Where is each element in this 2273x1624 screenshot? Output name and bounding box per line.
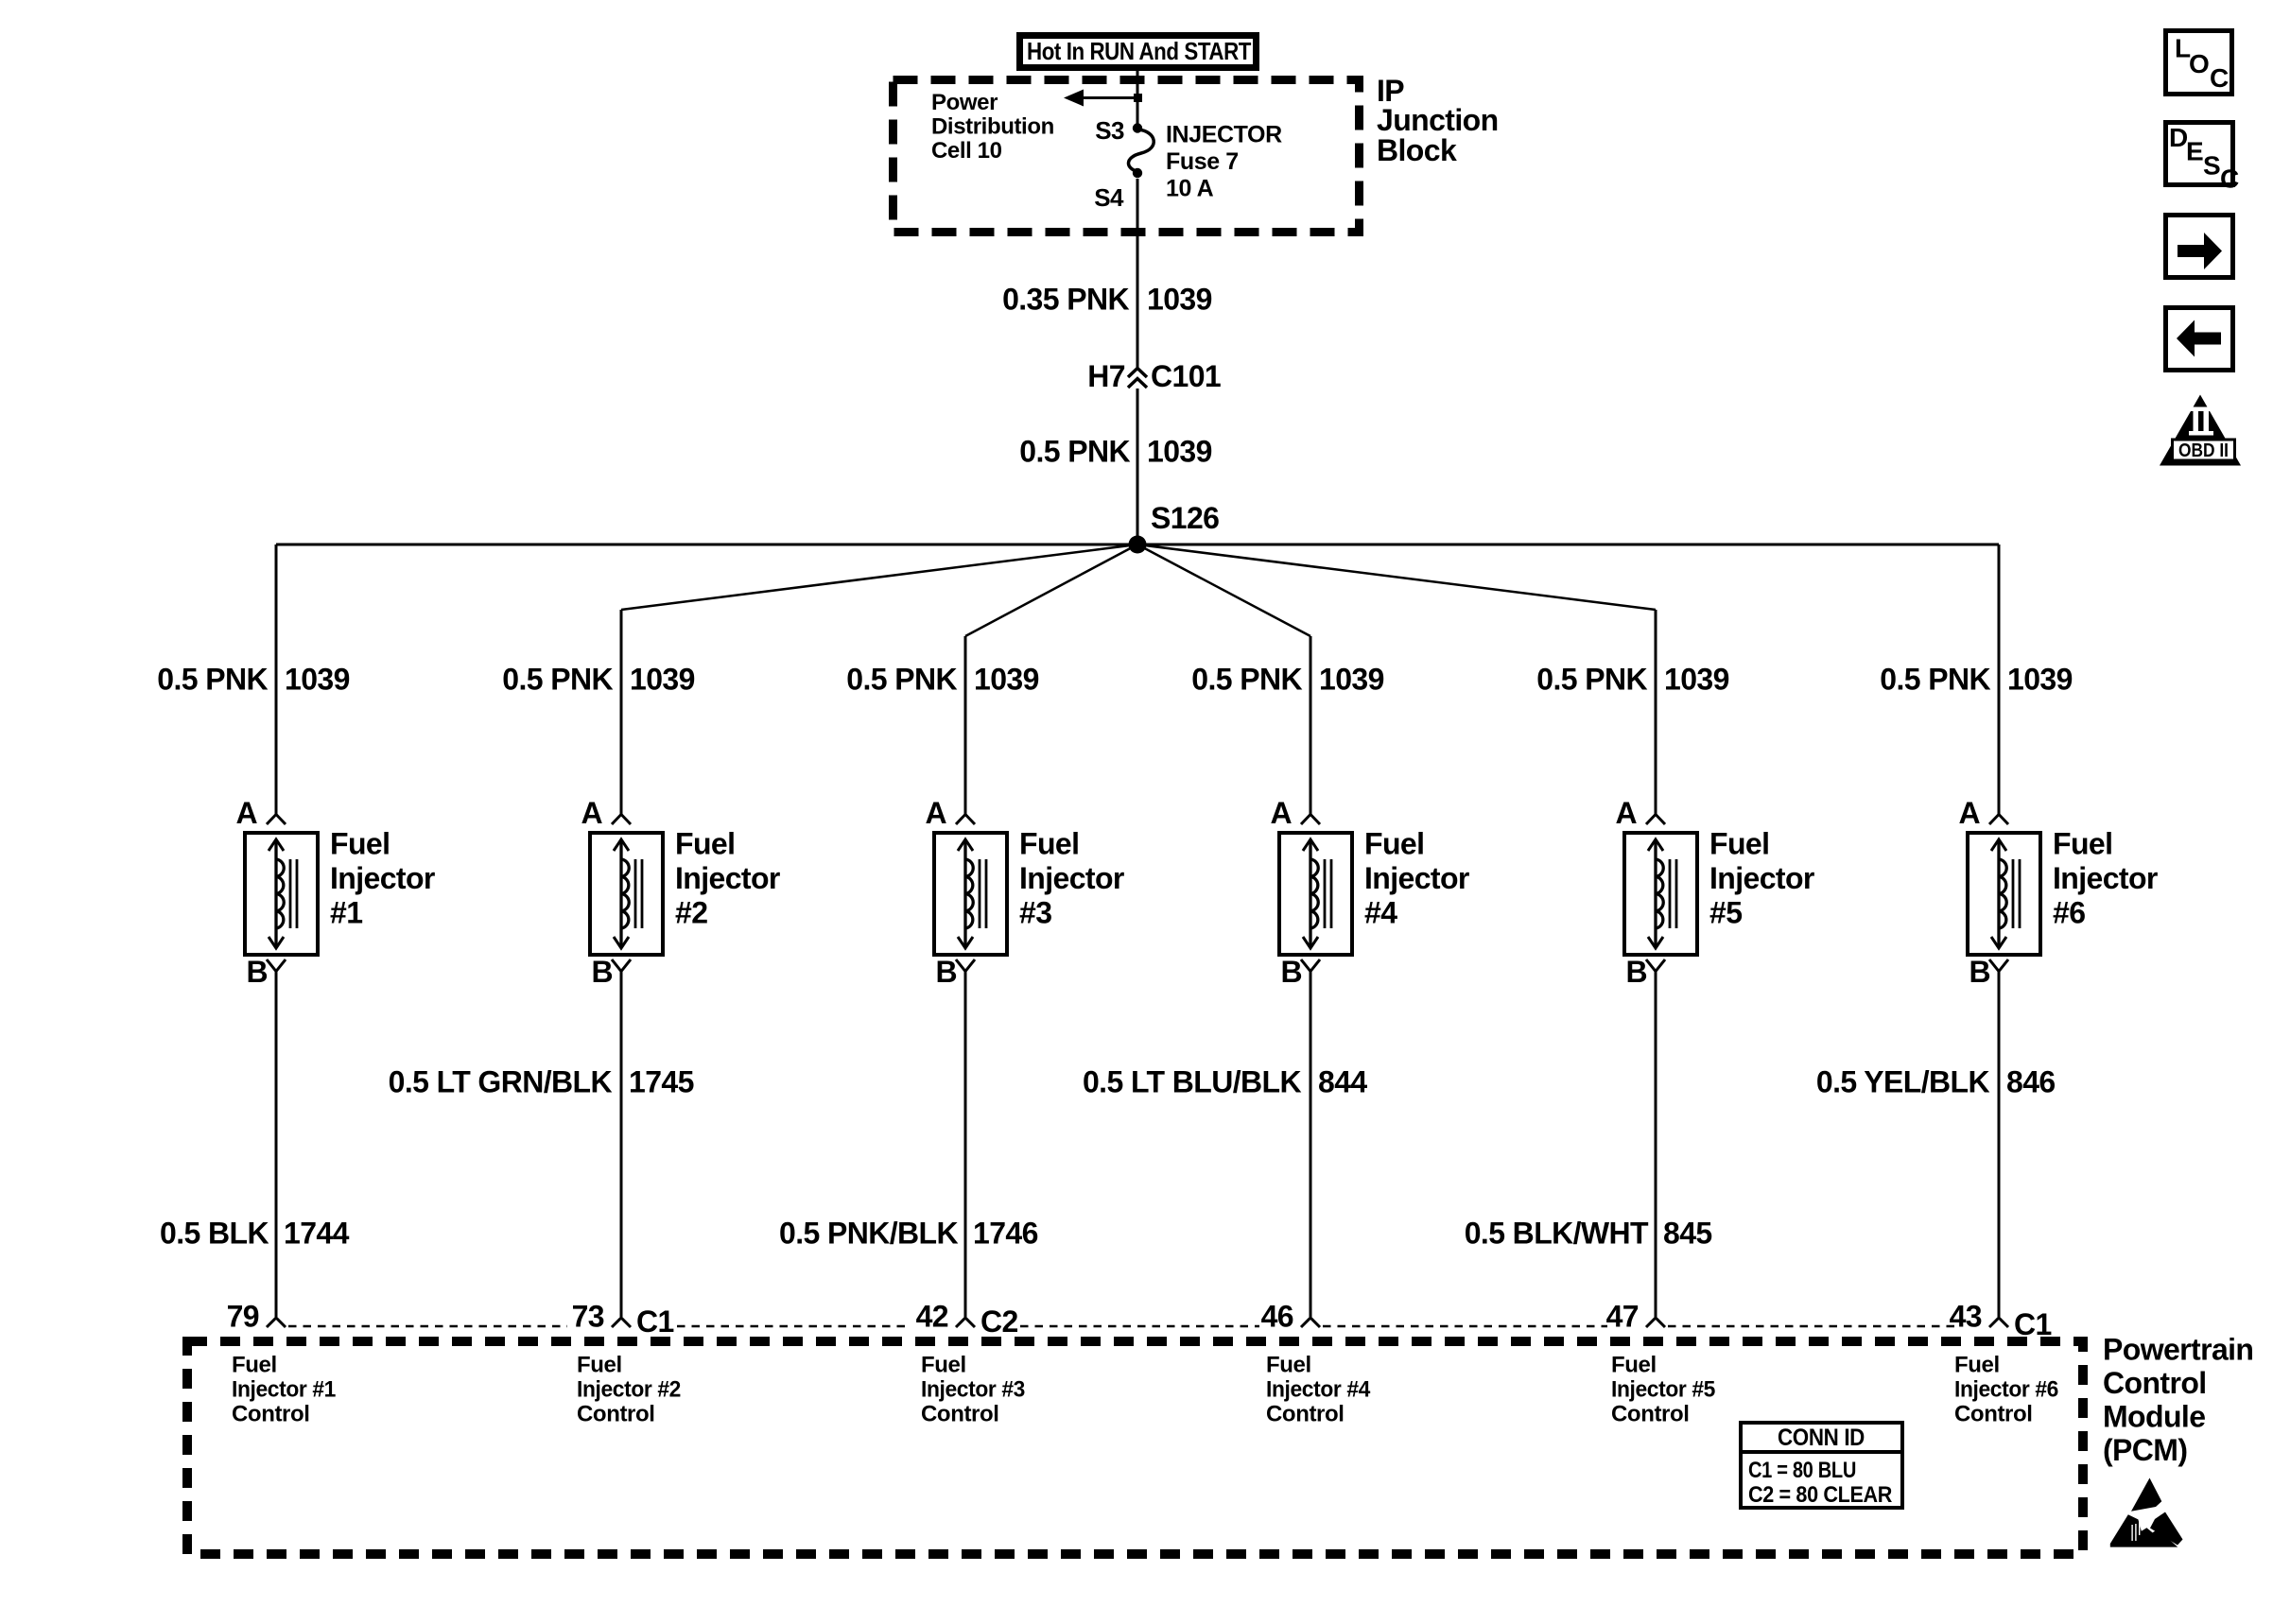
- fuel injector 4 (solenoid coil component): [1279, 833, 1352, 955]
- svg-text:OBD II: OBD II: [2178, 441, 2229, 461]
- svg-text:Block: Block: [1377, 133, 1457, 167]
- svg-text:0.5 PNK: 0.5 PNK: [1191, 663, 1302, 697]
- wire label 0.5 PNK 1039 (branch 2): [502, 663, 695, 697]
- svg-text:C: C: [2210, 63, 2229, 93]
- svg-text:Injector: Injector: [2053, 861, 2158, 895]
- wire label 0.5 PNK 1039 (branch 6): [1880, 663, 2073, 697]
- pin A of injector 3: [925, 796, 975, 830]
- svg-text:Fuse 7: Fuse 7: [1166, 148, 1239, 175]
- PCM pin 47: [1606, 1300, 1665, 1334]
- fuse element: INJECTOR Fuse 7 10A: [1128, 130, 1154, 172]
- pin B of injector 5: [1625, 955, 1665, 989]
- svg-text:845: 845: [1663, 1217, 1712, 1251]
- svg-text:Fuel: Fuel: [232, 1353, 277, 1378]
- svg-text:Powertrain: Powertrain: [2103, 1333, 2253, 1367]
- svg-text:0.35 PNK: 0.35 PNK: [1002, 283, 1129, 317]
- pin A of injector 4: [1270, 796, 1320, 830]
- wire: injector 3 to PCM: [964, 972, 967, 1317]
- wire: pink feed to injector 5: [1655, 610, 1657, 814]
- pin A of injector 6: [1958, 796, 2008, 830]
- fuel injector 4 name label: [1364, 827, 1469, 930]
- wire: pink feed to injector 2: [620, 610, 623, 814]
- svg-text:Junction: Junction: [1377, 103, 1499, 137]
- wire: diagonal S126 to injector 4 branch: [1137, 544, 1310, 636]
- svg-text:0.5 PNK: 0.5 PNK: [1880, 663, 1990, 697]
- wire: diagonal S126 to injector 2 branch: [621, 544, 1137, 610]
- svg-text:A: A: [1615, 796, 1637, 830]
- svg-text:43: 43: [1950, 1300, 1982, 1334]
- svg-text:0.5 PNK/BLK: 0.5 PNK/BLK: [779, 1217, 958, 1251]
- svg-text:Fuel: Fuel: [1266, 1353, 1311, 1378]
- ESD sensitive device symbol: [2110, 1478, 2183, 1547]
- svg-text:A: A: [925, 796, 946, 830]
- PCM input: Fuel Injector #5 Control: [1611, 1353, 1715, 1427]
- svg-text:0.5 PNK: 0.5 PNK: [1536, 663, 1647, 697]
- svg-text:Injector: Injector: [330, 861, 435, 895]
- svg-text:Fuel: Fuel: [1364, 827, 1424, 861]
- svg-text:(PCM): (PCM): [2103, 1433, 2187, 1467]
- svg-text:C1: C1: [636, 1304, 674, 1339]
- PCM pin 46: [1261, 1300, 1320, 1334]
- forward arrow icon: [2166, 216, 2233, 278]
- svg-text:0.5 LT BLU/BLK: 0.5 LT BLU/BLK: [1083, 1065, 1301, 1099]
- svg-text:0.5 PNK: 0.5 PNK: [157, 663, 268, 697]
- svg-text:0.5 PNK: 0.5 PNK: [502, 663, 613, 697]
- svg-text:10 A: 10 A: [1166, 176, 1214, 202]
- svg-text:C1 = 80 BLU: C1 = 80 BLU: [1748, 1458, 1856, 1483]
- pin B of injector 6: [1969, 955, 2008, 989]
- wire: pink feed to injector 6: [1998, 544, 2001, 814]
- wire: branch arrow to Power Distribution (left): [1064, 90, 1142, 107]
- svg-text:B: B: [1969, 955, 1990, 989]
- PCM input: Fuel Injector #2 Control: [577, 1353, 681, 1427]
- svg-text:Control: Control: [1611, 1402, 1690, 1427]
- svg-text:Fuel: Fuel: [1709, 827, 1769, 861]
- svg-text:1039: 1039: [974, 663, 1039, 697]
- PCM input: Fuel Injector #6 Control: [1954, 1353, 2058, 1427]
- svg-text:Injector #2: Injector #2: [577, 1377, 681, 1403]
- svg-text:0.5 LT GRN/BLK: 0.5 LT GRN/BLK: [389, 1065, 613, 1099]
- connector interface dotted line: [288, 1325, 1955, 1328]
- svg-text:1039: 1039: [1664, 663, 1729, 697]
- svg-text:Control: Control: [2103, 1366, 2207, 1400]
- svg-text:1744: 1744: [284, 1217, 350, 1251]
- node S3: [1095, 116, 1142, 145]
- wire: C101 down to splice S126: [1136, 389, 1139, 544]
- svg-text:Module: Module: [2103, 1400, 2205, 1434]
- fuel injector 6 name label: [2053, 827, 2158, 930]
- connector C101 pin H7 (inline double chevron): [1087, 359, 1221, 393]
- svg-text:C: C: [2220, 164, 2239, 194]
- svg-text:0.5 BLK: 0.5 BLK: [160, 1217, 269, 1251]
- svg-text:Control: Control: [577, 1402, 655, 1427]
- svg-text:Injector #6: Injector #6: [1954, 1377, 2058, 1403]
- svg-text:Injector #1: Injector #1: [232, 1377, 336, 1403]
- PCM pin 79: [227, 1300, 286, 1334]
- wire label 0.5 PNK 1039 (feed): [1019, 435, 1212, 469]
- svg-text:S: S: [2203, 151, 2220, 181]
- PCM pin 43: [1950, 1300, 2008, 1334]
- svg-text:#1: #1: [330, 896, 362, 930]
- wire: diagonal S126 to injector 3 branch: [965, 544, 1137, 636]
- svg-text:#2: #2: [675, 896, 707, 930]
- pin B of injector 2: [591, 955, 631, 989]
- svg-text:Injector: Injector: [1709, 861, 1814, 895]
- svg-text:C2 = 80 CLEAR: C2 = 80 CLEAR: [1748, 1482, 1892, 1508]
- back arrow icon: [2166, 308, 2233, 371]
- svg-text:1745: 1745: [629, 1065, 694, 1099]
- svg-text:Control: Control: [232, 1402, 310, 1427]
- svg-text:1039: 1039: [1319, 663, 1384, 697]
- svg-text:C101: C101: [1151, 359, 1221, 393]
- svg-text:#6: #6: [2053, 896, 2085, 930]
- svg-text:S3: S3: [1095, 116, 1124, 145]
- Power Distribution Cell 10 note: [931, 90, 1054, 164]
- IP Junction Block name: [1377, 74, 1499, 167]
- LOC reference icon: [2166, 31, 2232, 95]
- svg-text:Fuel: Fuel: [2053, 827, 2112, 861]
- node S4: [1094, 168, 1142, 212]
- wire: splice bus horizontal: [276, 544, 1999, 546]
- PCM input: Fuel Injector #4 Control: [1266, 1353, 1371, 1427]
- fuse value label INJECTOR Fuse 7 10 A: [1166, 122, 1282, 202]
- wire label 0.35 PNK 1039: [1002, 283, 1212, 317]
- svg-text:0.5 PNK: 0.5 PNK: [1019, 435, 1130, 469]
- svg-text:Hot In RUN And START: Hot In RUN And START: [1027, 37, 1252, 65]
- fuel injector 3 (solenoid coil component): [934, 833, 1007, 955]
- fuel injector 1 (solenoid coil component): [245, 833, 318, 955]
- svg-text:Fuel: Fuel: [577, 1353, 622, 1378]
- svg-text:B: B: [935, 955, 957, 989]
- svg-text:A: A: [235, 796, 257, 830]
- pin B of injector 3: [935, 955, 975, 989]
- svg-text:Distribution: Distribution: [931, 114, 1054, 140]
- svg-text:C2: C2: [980, 1304, 1018, 1339]
- wire: injector 4 to PCM: [1310, 972, 1312, 1317]
- svg-text:S4: S4: [1094, 183, 1124, 212]
- fuel injector 2 (solenoid coil component): [590, 833, 663, 955]
- svg-text:Injector: Injector: [1019, 861, 1124, 895]
- svg-text:#3: #3: [1019, 896, 1051, 930]
- svg-text:INJECTOR: INJECTOR: [1166, 122, 1282, 148]
- svg-text:1039: 1039: [1147, 435, 1212, 469]
- wire colour label 0.5 PNK/BLK 1746: [779, 1217, 1038, 1251]
- wire: injector 2 to PCM: [620, 972, 623, 1317]
- wire: injector 1 to PCM: [275, 972, 278, 1317]
- wire: feed from Hot box into junction block: [1136, 67, 1139, 124]
- fuel injector 5 name label: [1709, 827, 1814, 930]
- fuel injector 5 (solenoid coil component): [1624, 833, 1697, 955]
- wire: injector 5 to PCM: [1655, 972, 1657, 1317]
- svg-text:Injector #5: Injector #5: [1611, 1377, 1715, 1403]
- CONN ID table: [1739, 1423, 1904, 1508]
- fuel injector 6 (solenoid coil component): [1968, 833, 2040, 955]
- svg-text:H7: H7: [1087, 359, 1125, 393]
- Powertrain Control Module (PCM) name: [2103, 1333, 2253, 1468]
- svg-text:79: 79: [227, 1300, 259, 1334]
- svg-text:D: D: [2169, 123, 2188, 152]
- svg-text:Control: Control: [1266, 1402, 1345, 1427]
- svg-text:B: B: [591, 955, 613, 989]
- wire label 0.5 PNK 1039 (branch 3): [846, 663, 1039, 697]
- PCM input: Fuel Injector #3 Control: [921, 1353, 1025, 1427]
- pin B of injector 4: [1280, 955, 1320, 989]
- svg-text:B: B: [246, 955, 268, 989]
- svg-text:E: E: [2186, 137, 2203, 166]
- connector id C1 at pin 73: [636, 1304, 674, 1339]
- svg-text:Injector: Injector: [1364, 861, 1469, 895]
- PCM input: Fuel Injector #1 Control: [232, 1353, 336, 1427]
- wire colour label 0.5 BLK 1744: [160, 1217, 350, 1251]
- svg-text:B: B: [1625, 955, 1647, 989]
- svg-text:#5: #5: [1709, 896, 1742, 930]
- OBD II triangle icon: [2160, 395, 2241, 466]
- PCM pin 42: [916, 1300, 975, 1334]
- connector id C1 at pin 43: [2014, 1307, 2052, 1341]
- svg-text:Injector #3: Injector #3: [921, 1377, 1025, 1403]
- pin A of injector 5: [1615, 796, 1665, 830]
- fuel injector 2 name label: [675, 827, 780, 930]
- svg-text:846: 846: [2006, 1065, 2056, 1099]
- fuel injector 3 name label: [1019, 827, 1124, 930]
- wire colour label 0.5 LT BLU/BLK 844: [1083, 1065, 1367, 1099]
- svg-text:Injector #4: Injector #4: [1266, 1377, 1371, 1403]
- svg-text:Cell 10: Cell 10: [931, 138, 1002, 164]
- svg-text:Fuel: Fuel: [1611, 1353, 1657, 1378]
- pin B of injector 1: [246, 955, 286, 989]
- IP Junction Block dashed outline: [894, 80, 1360, 233]
- pin A of injector 1: [235, 796, 286, 830]
- wire label 0.5 PNK 1039 (branch 1): [157, 663, 350, 697]
- PCM pin 73: [572, 1300, 631, 1334]
- svg-text:A: A: [1958, 796, 1980, 830]
- wire: injector 6 to PCM: [1998, 972, 2001, 1317]
- svg-text:1039: 1039: [630, 663, 695, 697]
- svg-text:A: A: [581, 796, 602, 830]
- wire colour label 0.5 BLK/WHT 845: [1465, 1217, 1712, 1251]
- svg-text:#4: #4: [1364, 896, 1397, 930]
- svg-text:CONN ID: CONN ID: [1778, 1425, 1865, 1451]
- connector id C2 at pin 42: [980, 1304, 1018, 1339]
- svg-text:Injector: Injector: [675, 861, 780, 895]
- Powertrain Control Module dashed outline: [187, 1341, 2083, 1554]
- svg-text:1039: 1039: [285, 663, 350, 697]
- svg-text:O: O: [2189, 49, 2209, 78]
- svg-text:Control: Control: [1954, 1402, 2033, 1427]
- wire label 0.5 PNK 1039 (branch 4): [1191, 663, 1384, 697]
- splice S126: [1129, 501, 1220, 554]
- power label box "Hot In RUN And START": [1020, 36, 1257, 68]
- wire colour label 0.5 LT GRN/BLK 1745: [389, 1065, 694, 1099]
- svg-text:Fuel: Fuel: [675, 827, 735, 861]
- svg-text:844: 844: [1318, 1065, 1367, 1099]
- svg-text:Fuel: Fuel: [330, 827, 390, 861]
- svg-text:S126: S126: [1151, 501, 1219, 535]
- svg-text:Power: Power: [931, 90, 998, 115]
- svg-text:46: 46: [1261, 1300, 1293, 1334]
- wire: pink feed to injector 3: [964, 636, 967, 814]
- wire: diagonal S126 to injector 5 branch: [1137, 544, 1656, 610]
- wire: fuse S4 down to C101 connector: [1136, 179, 1139, 368]
- wire: pink feed to injector 1: [275, 544, 278, 814]
- DESC reference icon: [2166, 123, 2240, 194]
- svg-text:Control: Control: [921, 1402, 999, 1427]
- svg-text:Fuel: Fuel: [1019, 827, 1079, 861]
- svg-text:1039: 1039: [2007, 663, 2073, 697]
- svg-text:1746: 1746: [973, 1217, 1038, 1251]
- svg-text:A: A: [1270, 796, 1292, 830]
- fuel injector 1 name label: [330, 827, 435, 930]
- svg-text:47: 47: [1606, 1300, 1639, 1334]
- svg-text:Fuel: Fuel: [921, 1353, 966, 1378]
- svg-text:1039: 1039: [1147, 283, 1212, 317]
- svg-text:0.5 BLK/WHT: 0.5 BLK/WHT: [1465, 1217, 1649, 1251]
- wire colour label 0.5 YEL/BLK 846: [1816, 1065, 2056, 1099]
- wire: pink feed to injector 4: [1310, 636, 1312, 814]
- wire label 0.5 PNK 1039 (branch 5): [1536, 663, 1729, 697]
- pin A of injector 2: [581, 796, 631, 830]
- svg-text:0.5 YEL/BLK: 0.5 YEL/BLK: [1816, 1065, 1990, 1099]
- svg-text:42: 42: [916, 1300, 948, 1334]
- svg-text:0.5 PNK: 0.5 PNK: [846, 663, 957, 697]
- svg-text:C1: C1: [2014, 1307, 2052, 1341]
- svg-text:73: 73: [572, 1300, 604, 1334]
- svg-text:B: B: [1280, 955, 1302, 989]
- svg-text:Fuel: Fuel: [1954, 1353, 2000, 1378]
